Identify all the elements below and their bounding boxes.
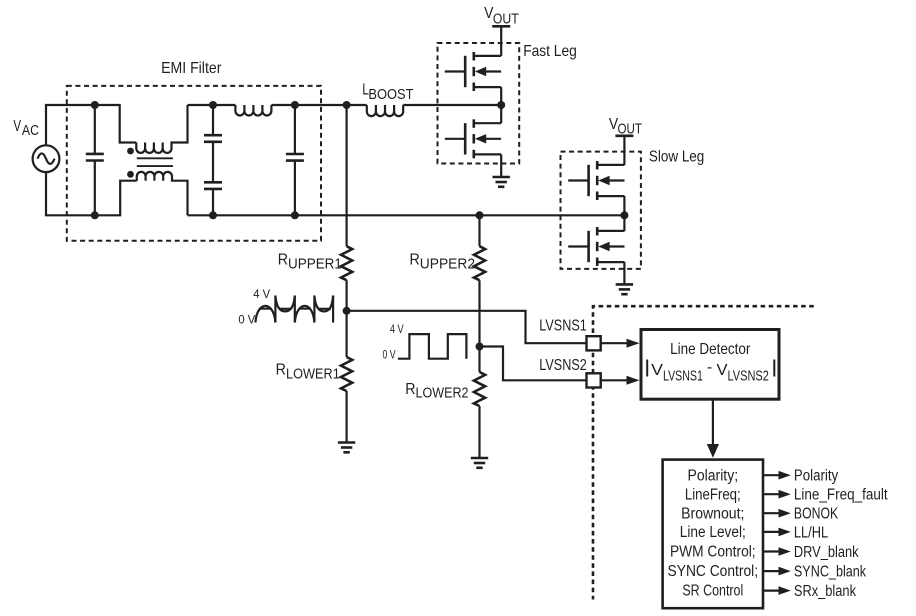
choke polarity dot top bbox=[127, 148, 134, 155]
resistor RLOWER1 bbox=[341, 357, 352, 391]
wire RLOWER2 to ground bbox=[478, 406, 480, 458]
node dot CX2 top bbox=[291, 101, 299, 109]
capacitor CY2 bbox=[204, 182, 222, 215]
svg-text:UPPER1: UPPER1 bbox=[288, 256, 342, 273]
svg-text:AC: AC bbox=[22, 122, 39, 139]
svg-text:V: V bbox=[717, 362, 728, 379]
arrow output BONOK bbox=[763, 509, 791, 518]
control block box U2 bbox=[663, 460, 763, 609]
label VOUT fast bbox=[484, 5, 519, 27]
label VOUT slow bbox=[609, 116, 642, 138]
node dot RUPPER1 tap bbox=[343, 101, 351, 109]
wire top rail VAC to choke bbox=[45, 105, 136, 143]
wire node A to LVSNS1 pin bbox=[347, 311, 587, 343]
wire node B to LVSNS2 pin bbox=[480, 347, 587, 381]
transistor Q4 (slow low-side) bbox=[568, 227, 624, 266]
svg-text:BONOK: BONOK bbox=[794, 506, 839, 523]
svg-text:0 V: 0 V bbox=[238, 314, 255, 326]
node dot B (LVSNS2 divider) bbox=[476, 343, 484, 351]
svg-text:SYNC_blank: SYNC_blank bbox=[794, 564, 866, 581]
capacitor CX1 bbox=[86, 105, 104, 215]
svg-text:Line Detector: Line Detector bbox=[670, 341, 751, 358]
label |VLVSNS1 - VLVSNS2| bbox=[647, 359, 774, 385]
inductor LBOOST bbox=[367, 105, 403, 116]
node dot CX2 bottom bbox=[291, 211, 299, 219]
svg-text:Line Level;: Line Level; bbox=[680, 524, 746, 541]
arrow line detector to control block bbox=[707, 399, 719, 458]
wire top rail choke to L1 bbox=[188, 104, 236, 106]
wire VAC bottom lead bbox=[45, 172, 47, 215]
source VAC bbox=[33, 145, 60, 172]
svg-text:Line_Freq_fault: Line_Freq_fault bbox=[794, 487, 888, 504]
node dot CX1 bottom bbox=[91, 211, 99, 219]
svg-text:R: R bbox=[405, 381, 415, 398]
node dot CY top bbox=[209, 101, 217, 109]
svg-text:Polarity;: Polarity; bbox=[688, 468, 739, 485]
VOUT slow terminal tick bbox=[615, 135, 633, 138]
label RLOWER2 bbox=[405, 381, 468, 402]
svg-text:LOWER2: LOWER2 bbox=[416, 385, 469, 402]
svg-text:LVSNS2: LVSNS2 bbox=[728, 368, 769, 385]
label RUPPER1 bbox=[278, 252, 342, 273]
svg-text:V: V bbox=[13, 118, 21, 135]
wire node B to RLOWER2 bbox=[478, 347, 480, 373]
wire VOUT to Q1 drain bbox=[500, 26, 502, 56]
ground slow leg bbox=[616, 284, 633, 294]
wire bottom rail VAC to choke bbox=[45, 181, 137, 216]
label RLOWER1 bbox=[276, 361, 340, 382]
wire Q1 source to Q2 drain bbox=[500, 87, 502, 123]
node dot fast leg midpoint bbox=[497, 101, 505, 109]
wire bottom rail choke to exit bbox=[188, 214, 322, 216]
svg-text:R: R bbox=[278, 252, 288, 269]
svg-text:0 V: 0 V bbox=[383, 350, 396, 362]
EMI filter dashed box bbox=[67, 86, 321, 241]
svg-text:4 V: 4 V bbox=[390, 324, 404, 336]
label RUPPER2 bbox=[410, 252, 476, 273]
svg-text:DRV_blank: DRV_blank bbox=[794, 544, 859, 561]
svg-text:4 V: 4 V bbox=[253, 289, 270, 301]
arrow output Line_Freq_fault bbox=[763, 490, 791, 499]
transistor Q2 (fast low-side) bbox=[445, 119, 501, 158]
choke core lines bbox=[137, 158, 173, 166]
transistor Q3 (slow high-side) bbox=[568, 161, 624, 200]
fast leg dashed box bbox=[438, 43, 520, 164]
arrow output DRV_blank bbox=[763, 547, 791, 556]
arrow LVSNS2 to line detector bbox=[601, 376, 640, 385]
node dot A (LVSNS1 divider) bbox=[343, 307, 351, 315]
wire Q4 source to ground bbox=[623, 262, 625, 284]
capacitor CX2 bbox=[286, 105, 304, 215]
wire top rail LBOOST to fast leg bbox=[403, 104, 501, 106]
wire VAC top lead bbox=[45, 105, 47, 145]
label LBOOST bbox=[362, 82, 413, 104]
choke polarity dot bottom bbox=[127, 171, 134, 178]
svg-text:Polarity: Polarity bbox=[794, 468, 839, 485]
ground fast leg bbox=[493, 177, 510, 187]
label VAC bbox=[13, 118, 39, 139]
resistor RUPPER1 bbox=[341, 246, 352, 280]
line detector box U1 bbox=[641, 330, 779, 400]
ground RLOWER2 bbox=[471, 458, 488, 468]
arrow output LL/HL bbox=[763, 528, 791, 537]
svg-text:R: R bbox=[410, 252, 420, 269]
svg-text:OUT: OUT bbox=[493, 10, 519, 27]
resistor RLOWER2 bbox=[474, 372, 485, 406]
node dot slow leg midpoint bbox=[620, 211, 628, 219]
arrow output Polarity bbox=[763, 471, 791, 480]
svg-text:LVSNS2: LVSNS2 bbox=[539, 357, 587, 374]
svg-text:PWM Control;: PWM Control; bbox=[670, 543, 756, 560]
svg-text:-: - bbox=[707, 359, 712, 376]
svg-text:LL/HL: LL/HL bbox=[794, 524, 829, 541]
arrow LVSNS1 to line detector bbox=[601, 339, 640, 348]
svg-text:SYNC Control;: SYNC Control; bbox=[668, 563, 759, 580]
resistor RUPPER2 bbox=[474, 246, 485, 280]
svg-text:Fast Leg: Fast Leg bbox=[523, 43, 577, 60]
svg-text:EMI Filter: EMI Filter bbox=[161, 60, 222, 77]
svg-text:LineFreq;: LineFreq; bbox=[685, 487, 741, 504]
wire rail tap to RUPPER2 bbox=[478, 215, 480, 246]
ground RLOWER1 bbox=[338, 443, 355, 453]
svg-text:Slow Leg: Slow Leg bbox=[649, 149, 704, 166]
wire RLOWER1 to ground bbox=[346, 391, 348, 443]
common-mode choke T1 bottom winding bbox=[137, 172, 188, 215]
wire RUPPER2 to node B bbox=[478, 280, 480, 346]
wire top rail L1 to LBOOST bbox=[271, 104, 366, 106]
wire node A to RLOWER1 bbox=[346, 311, 348, 357]
waveform rectified sine at node A bbox=[255, 296, 333, 323]
common-mode choke T1 top winding bbox=[136, 105, 187, 153]
node dot CY bottom bbox=[209, 211, 217, 219]
svg-text:UPPER2: UPPER2 bbox=[420, 256, 475, 273]
arrow output SRx_blank bbox=[763, 586, 791, 595]
svg-text:R: R bbox=[276, 361, 286, 378]
svg-text:Brownout;: Brownout; bbox=[681, 506, 744, 523]
svg-text:LOWER1: LOWER1 bbox=[286, 366, 340, 383]
svg-text:SRx_blank: SRx_blank bbox=[794, 583, 856, 600]
pin square LVSNS2 bbox=[587, 373, 601, 387]
wire VOUT to Q3 drain bbox=[623, 136, 625, 165]
wire bottom rail to slow leg bbox=[321, 214, 624, 216]
arrow output SYNC_blank bbox=[763, 567, 791, 576]
wire Q3 source to Q4 drain bbox=[623, 196, 625, 231]
svg-text:BOOST: BOOST bbox=[368, 86, 413, 103]
pin square LVSNS1 bbox=[587, 336, 601, 350]
VOUT fast terminal tick bbox=[492, 25, 510, 28]
controller dashed boundary bbox=[593, 306, 814, 599]
capacitor CY1 bbox=[204, 105, 222, 182]
svg-text:LVSNS1: LVSNS1 bbox=[663, 368, 703, 385]
node dot CX1 top bbox=[91, 101, 99, 109]
svg-text:SR Control: SR Control bbox=[682, 582, 743, 599]
transistor Q1 (fast high-side) bbox=[445, 52, 501, 91]
wire RUPPER1 to node A bbox=[346, 280, 348, 311]
slow leg dashed box bbox=[561, 152, 641, 269]
svg-text:LVSNS1: LVSNS1 bbox=[539, 318, 587, 335]
inductor L1 (EMI series) bbox=[235, 105, 271, 116]
wire rail tap to RUPPER1 bbox=[346, 105, 348, 246]
waveform square at node B bbox=[398, 334, 467, 359]
svg-text:V: V bbox=[651, 362, 663, 379]
node dot RUPPER2 tap bbox=[476, 211, 484, 219]
wire Q2 source to ground bbox=[500, 154, 502, 177]
